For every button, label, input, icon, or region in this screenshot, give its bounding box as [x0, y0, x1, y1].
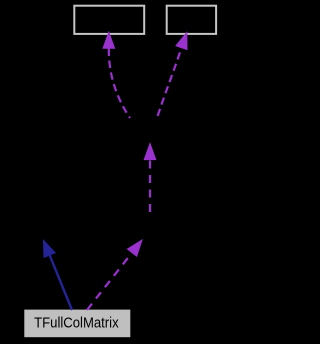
inheritance arrowhead — [44, 240, 56, 257]
usage arrowhead middle — [144, 144, 156, 160]
svg-text:TFullColMatrix: TFullColMatrix — [34, 316, 119, 332]
usage arrow to top-left box (dashed purple curve) wire — [109, 49, 130, 119]
usage arrow from TFullColMatrix (dashed purple) wire — [87, 253, 132, 310]
usage arrow to top-right box (dashed purple curve) wire — [157, 48, 182, 118]
usage arrow vertical middle (dashed purple) wire — [149, 160, 151, 212]
usage arrowhead top-left — [103, 32, 115, 48]
node box top-right (empty) — [167, 6, 216, 34]
node box TFullColMatrix — [24, 310, 130, 338]
usage arrowhead lower — [128, 240, 143, 256]
usage arrowhead top-right — [176, 33, 187, 50]
inheritance arrow (solid blue) wire — [50, 255, 72, 310]
node box top-left (empty) — [74, 6, 144, 34]
